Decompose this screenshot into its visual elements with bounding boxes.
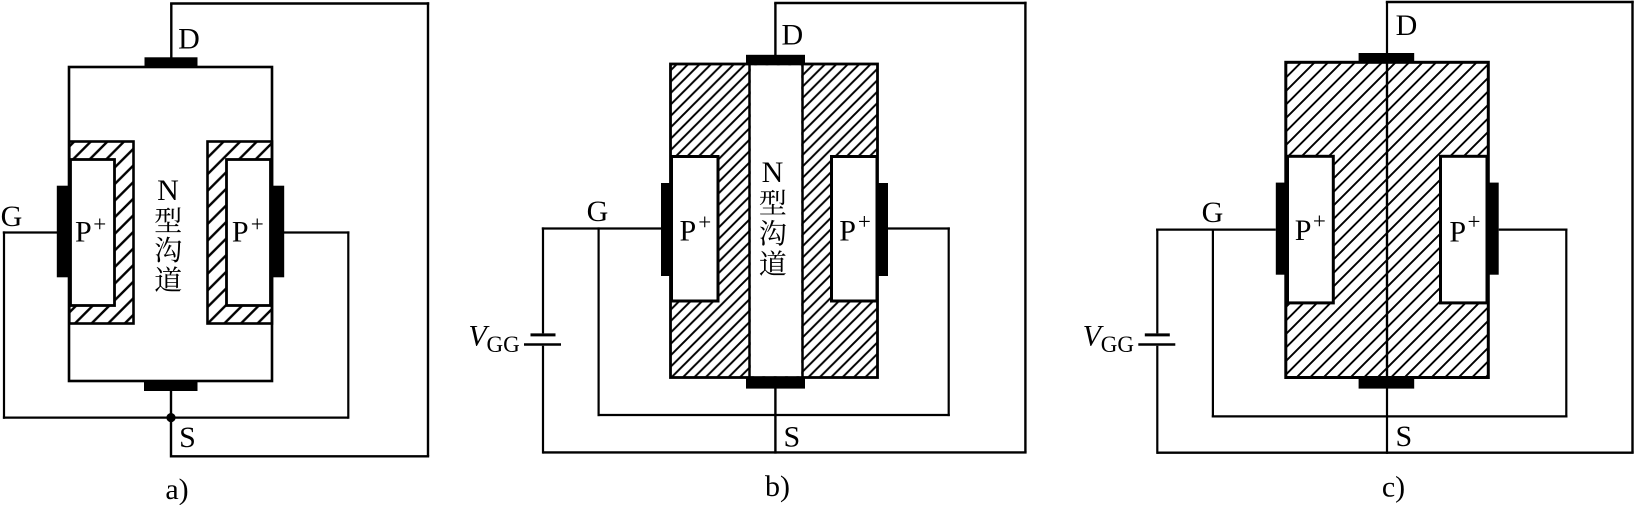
- svg-text:P: P: [75, 216, 92, 249]
- svg-text:a): a): [165, 473, 188, 505]
- wire: right gate contact lead (panel b): [888, 227, 950, 229]
- wire: bottom horizontal S return and battery minus run (panel c): [1157, 452, 1633, 454]
- gate metal contact, right (panel a): [272, 186, 284, 278]
- svg-text:N: N: [762, 156, 784, 189]
- wire: right gate contact lead (panel c): [1499, 229, 1568, 231]
- wire: bottom horizontal S return and battery minus run (panel b): [543, 451, 1027, 453]
- battery VGG short negative plate (panel c): [1145, 333, 1170, 336]
- wire: drain lead up from D contact (panel a): [170, 4, 172, 59]
- battery VGG long positive plate (panel b): [524, 343, 561, 346]
- wire: gate tie left vertical under G (panel b): [597, 227, 599, 416]
- wire: G lead to left gate contact (panel a): [3, 231, 57, 233]
- wire: top horizontal run D to right loop (panel a): [170, 2, 429, 4]
- battery VGG top lead (panel b): [542, 227, 544, 333]
- wire: source lead down from S contact (panel b): [774, 388, 776, 454]
- svg-text:b): b): [765, 470, 790, 503]
- svg-text:P: P: [1449, 215, 1466, 248]
- svg-text:S: S: [783, 421, 800, 454]
- source metal contact bar S (panel c): [1359, 378, 1415, 389]
- gate metal contact, left (panel a): [57, 186, 69, 278]
- channel label CJK dao (panel a): [155, 266, 181, 291]
- wire: right vertical from right gate contact (panel a): [347, 231, 349, 418]
- svg-text:G: G: [587, 195, 609, 228]
- source metal contact bar S (panel b): [746, 378, 805, 389]
- svg-text:P: P: [839, 215, 856, 248]
- svg-text:D: D: [1396, 9, 1418, 42]
- wire: drain lead up from D contact (panel b): [774, 3, 776, 56]
- svg-text:+: +: [1468, 209, 1481, 234]
- channel label CJK gou (panel a): [155, 237, 181, 263]
- svg-text:S: S: [1395, 420, 1412, 453]
- wire: source lead down from S contact (panel a): [170, 390, 172, 458]
- wire: gate tie right vertical (panel b): [948, 227, 950, 416]
- wire: gate tie left vertical under G (panel c): [1212, 229, 1214, 418]
- svg-text:+: +: [858, 209, 871, 234]
- battery VGG short negative plate (panel b): [531, 333, 556, 336]
- gate metal contact, left (panel b): [661, 183, 673, 276]
- svg-text:GG: GG: [487, 332, 520, 357]
- svg-text:G: G: [1, 200, 23, 233]
- wire: bottom horizontal of outer D-S loop (panel a): [171, 455, 429, 457]
- battery VGG bottom lead (panel c): [1156, 346, 1158, 454]
- P+ gate region, right white box (panel c): [1441, 156, 1488, 303]
- P+ gate region, left white box (panel a): [71, 160, 115, 306]
- P+ gate region, right white box (panel b): [832, 157, 878, 302]
- drain metal contact bar D (panel b): [746, 55, 805, 64]
- channel label CJK xing (panel a): [155, 207, 181, 232]
- svg-text:P: P: [232, 216, 249, 249]
- P+ gate region, right white box (panel a): [227, 160, 271, 306]
- svg-text:+: +: [93, 212, 106, 237]
- P+ gate region, left white box (panel c): [1288, 156, 1334, 303]
- svg-text:D: D: [178, 23, 200, 56]
- JFET body hatched depletion bar (panel b): [671, 64, 878, 378]
- channel label CJK gou (panel b): [760, 220, 786, 246]
- svg-text:c): c): [1382, 471, 1405, 504]
- drain metal contact bar D (panel a): [145, 57, 198, 67]
- battery VGG bottom lead (panel b): [542, 346, 544, 454]
- wire: gate tie right vertical (panel c): [1565, 229, 1567, 418]
- depletion region hatched frame, right (panel a): [208, 142, 273, 324]
- wire: drain and source lead through center channel line (panel c): [1386, 2, 1388, 454]
- channel boundary line left (panel b): [748, 64, 751, 378]
- svg-text:G: G: [1202, 196, 1224, 229]
- P+ gate region, left white box (panel b): [672, 157, 719, 302]
- wire: G lead from battery to left gate contact (panel c): [1156, 229, 1276, 231]
- wire: gate tie bottom run (panel c): [1212, 415, 1568, 417]
- gate metal contact, left (panel c): [1276, 183, 1287, 275]
- channel boundary line right (panel b): [801, 64, 804, 378]
- wire: top horizontal run D to right loop (panel b): [774, 2, 1026, 4]
- pinched channel center line (panel c): [1386, 62, 1388, 377]
- wire: right gate contact lead (panel a): [284, 231, 349, 233]
- source metal contact bar S (panel a): [144, 381, 198, 391]
- JFET body fully depleted hatched bar (panel c): [1286, 62, 1489, 377]
- depletion region hatched frame, left (panel a): [69, 142, 133, 324]
- battery VGG long positive plate (panel c): [1138, 343, 1175, 346]
- wire: right vertical of outer D-S loop (panel b): [1024, 2, 1026, 453]
- wire: left vertical gate-to-source tie (panel a): [3, 231, 5, 418]
- JFET body outline N-type bar (panel a): [69, 67, 272, 381]
- svg-text:P: P: [680, 215, 697, 248]
- battery VGG top lead (panel c): [1156, 229, 1158, 334]
- gate metal contact, right (panel b): [877, 183, 889, 276]
- gate metal contact, right (panel c): [1487, 183, 1499, 275]
- svg-text:P: P: [1295, 214, 1312, 247]
- svg-text:GG: GG: [1101, 332, 1134, 357]
- svg-text:+: +: [251, 211, 264, 236]
- wire: gate tie bottom run (panel b): [598, 414, 950, 416]
- wire: G lead from battery to left gate contact (panel b): [542, 227, 661, 229]
- wire: right vertical of outer D-S loop (panel c): [1631, 1, 1633, 453]
- svg-text:+: +: [698, 210, 711, 235]
- svg-text:D: D: [781, 19, 803, 52]
- svg-text:S: S: [179, 421, 196, 454]
- channel label CJK dao (panel b): [760, 250, 786, 275]
- junction node dot at source tie (panel a): [166, 413, 175, 422]
- wire: right vertical of outer D-S loop (panel a): [427, 2, 429, 456]
- svg-text:N: N: [157, 174, 179, 207]
- channel label CJK xing (panel b): [760, 190, 786, 215]
- drain metal contact bar D (panel c): [1359, 53, 1415, 62]
- wire: top horizontal run D to right loop (panel c): [1386, 1, 1634, 3]
- N channel white column (panel b): [751, 65, 802, 376]
- svg-text:+: +: [1313, 209, 1326, 234]
- wire: bottom gate tie run to source node (panel a): [3, 417, 348, 419]
